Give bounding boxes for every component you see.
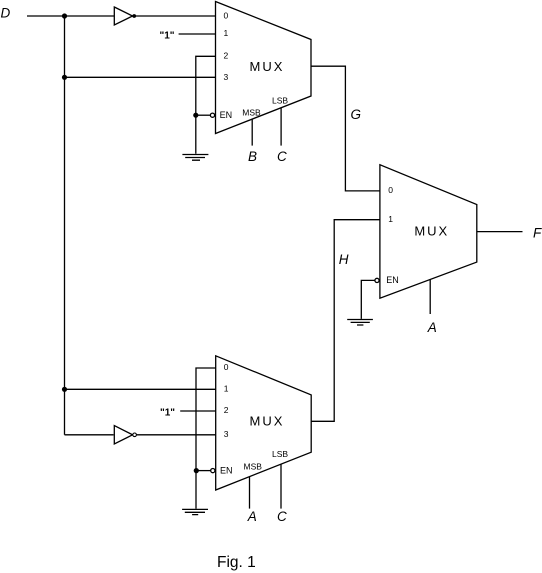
wire inverter to U2 input 3 xyxy=(137,434,216,436)
wire U1 input 2 to ground net xyxy=(196,56,216,154)
svg-text:0: 0 xyxy=(388,185,393,195)
svg-text:A: A xyxy=(247,509,257,524)
wire net H from U2 output to U3 input 1 xyxy=(311,220,380,422)
svg-text:C: C xyxy=(277,509,287,524)
svg-text:0: 0 xyxy=(224,10,229,20)
node junction dot U1 EN xyxy=(193,113,198,118)
node B label xyxy=(248,149,257,164)
wire buffer to U1 input 0 xyxy=(136,15,216,17)
svg-text:"1": "1" xyxy=(160,408,175,419)
mux U2 body xyxy=(216,356,312,490)
mux U1 body xyxy=(216,2,312,134)
svg-text:1: 1 xyxy=(224,28,229,38)
node U3 EN bubble xyxy=(375,278,379,282)
wire to U2 input 1 xyxy=(65,388,216,390)
node H label xyxy=(339,252,349,267)
wire D input xyxy=(27,15,114,17)
svg-text:2: 2 xyxy=(224,405,229,415)
wire select C bottom xyxy=(280,465,282,509)
svg-text:1: 1 xyxy=(388,214,393,224)
wire U3 EN to ground xyxy=(361,280,375,319)
node D label xyxy=(1,6,11,21)
wire U2 EN stub xyxy=(196,470,210,472)
node constant 1 label top xyxy=(160,31,175,42)
wire F output xyxy=(477,231,523,233)
svg-text:MSB: MSB xyxy=(242,108,261,118)
svg-text:G: G xyxy=(351,107,362,122)
svg-text:3: 3 xyxy=(224,72,229,82)
node A label bottom xyxy=(247,509,257,524)
svg-text:EN: EN xyxy=(220,110,233,120)
svg-text:2: 2 xyxy=(224,50,229,60)
node junction dot U2 EN xyxy=(194,468,199,473)
node U2 EN bubble xyxy=(211,469,215,473)
ground G2 under U3 xyxy=(347,320,373,326)
svg-text:A: A xyxy=(427,320,437,335)
buffer gate top xyxy=(114,7,132,25)
node A label right xyxy=(427,320,437,335)
wire select A right xyxy=(429,280,431,314)
wire select C top xyxy=(280,108,282,146)
node C label bottom xyxy=(277,509,287,524)
svg-text:B: B xyxy=(248,149,257,164)
caption Fig. 1 xyxy=(217,554,256,571)
wire U2 input 0 to ground net xyxy=(196,368,216,509)
inverter gate bottom xyxy=(114,426,132,444)
mux U2 labels xyxy=(220,362,288,475)
node junction dot D top xyxy=(62,13,67,18)
svg-text:Fig. 1: Fig. 1 xyxy=(217,554,256,571)
svg-text:"1": "1" xyxy=(160,31,175,42)
ground G3 under U2 xyxy=(182,509,208,514)
wire main vertical D bus xyxy=(64,16,66,435)
svg-text:MSB: MSB xyxy=(244,462,263,472)
node constant 1 label bottom xyxy=(160,408,175,419)
ground G1 under U1 xyxy=(182,155,208,161)
svg-text:LSB: LSB xyxy=(272,96,288,106)
wire to U1 input 3 xyxy=(65,76,216,78)
node junction dot input 3 xyxy=(62,75,67,80)
wire select A bottom xyxy=(249,477,251,509)
wire net G from U1 output to U3 input 0 xyxy=(311,66,380,191)
node buffer output dot xyxy=(132,14,136,18)
wire select B xyxy=(251,119,253,145)
svg-text:C: C xyxy=(277,149,287,164)
svg-text:1: 1 xyxy=(224,384,229,394)
wire D bus corner to inverter xyxy=(65,434,114,436)
mux U3 labels xyxy=(386,185,449,285)
mux U3 body xyxy=(380,165,477,299)
node C label top xyxy=(277,149,287,164)
node G label xyxy=(351,107,362,122)
svg-text:MUX: MUX xyxy=(250,59,285,74)
wire constant 1 to U1 input 1 xyxy=(179,33,216,35)
node inverter bubble xyxy=(133,433,137,437)
svg-text:MUX: MUX xyxy=(250,414,285,429)
svg-text:LSB: LSB xyxy=(272,449,288,459)
svg-text:D: D xyxy=(1,6,11,21)
svg-text:F: F xyxy=(533,225,542,240)
node U1 EN bubble xyxy=(210,113,214,117)
svg-text:H: H xyxy=(339,252,349,267)
svg-text:EN: EN xyxy=(386,275,399,285)
mux U1 labels xyxy=(220,10,289,120)
svg-text:MUX: MUX xyxy=(414,224,449,239)
svg-text:EN: EN xyxy=(220,465,233,475)
wire U1 EN stub xyxy=(196,114,211,116)
node F label xyxy=(533,225,542,240)
svg-text:3: 3 xyxy=(224,429,229,439)
svg-text:0: 0 xyxy=(224,362,229,372)
node junction dot U2 input 1 xyxy=(62,387,67,392)
wire constant 1 to U2 input 2 xyxy=(180,410,216,412)
